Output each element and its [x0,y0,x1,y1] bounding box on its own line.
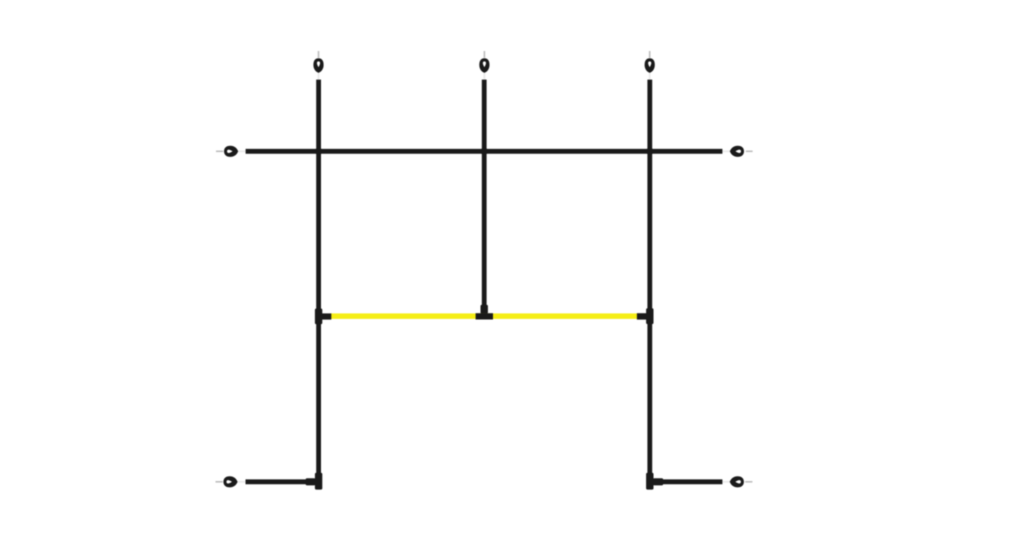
gap filament below eye E2 [483,73,485,80]
tail right of eye E5 [746,150,753,152]
wire V2 (middle vertical drop) [482,80,487,315]
wire H2 (lower left horizontal) [246,479,321,484]
wire V3 (right vertical drop) [647,80,652,489]
fitting F1 (left end cap of bar B1) [321,313,332,319]
fitting F3 (right end cap of bar B1) [637,313,648,319]
sleeve S6 (H3 near V3) [653,478,663,485]
junction J3 (H1 x V3) [646,148,653,155]
tail above eye E2 [483,51,485,58]
sleeve S1 (V1 at bar level) [315,309,322,325]
gap filament right of eye E6 [238,481,245,483]
sleeve S4 (H2 near V1) [306,478,316,485]
gap filament below eye E1 [318,73,320,80]
eye E7 (right end of H3) [730,476,744,487]
tail above eye E3 [649,51,651,58]
eye E2 (top middle hanging point) [479,58,489,73]
sleeve S7 (V3 bottom end) [646,473,653,490]
junction J1 (H1 x V1) [315,148,322,155]
eye E1 (top left hanging point) [313,58,323,73]
sleeve S3 (V3 at bar level) [646,308,653,324]
eye E3 (top right hanging point) [645,58,655,73]
gap filament left of eye E5 [723,150,730,152]
eye E6 (left end of H2) [223,476,237,487]
tail left of eye E4 [216,150,223,152]
sleeve S2 (V2 above bar cap) [481,305,488,314]
gap filament left of eye E7 [723,481,730,483]
bar B1 (yellow spreader bar) [331,313,637,319]
wire H1 (upper horizontal spreader) [246,149,723,154]
eye E4 (left end of H1) [224,146,238,157]
sleeve S5 (V1 bottom end) [315,473,322,490]
gap filament right of eye E4 [239,150,246,152]
junction J2 (H1 x V2) [481,148,488,155]
wire V1 (left vertical drop) [316,80,321,489]
eye E5 (right end of H1) [730,146,744,157]
wire H3 (lower right horizontal) [648,479,723,484]
fitting F2 (middle T cap on bar B1) [476,313,493,319]
gap filament below eye E3 [649,73,651,80]
tail left of eye E6 [216,481,223,483]
tail above eye E1 [318,51,320,58]
tail right of eye E7 [745,481,752,483]
